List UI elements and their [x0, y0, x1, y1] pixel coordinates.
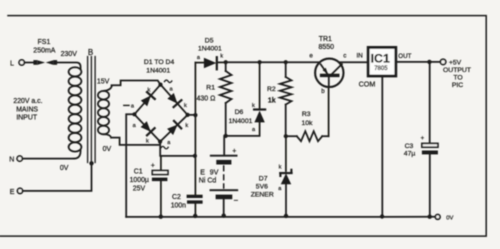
junction dot battery on rail — [222, 214, 226, 218]
junction dot R1 bottom battery — [224, 134, 228, 138]
svg-text:c: c — [343, 53, 346, 60]
svg-text:R2: R2 — [267, 86, 276, 93]
diode D2 (bridge top-right) — [167, 86, 187, 109]
wire earth E to core — [23, 164, 92, 191]
wire 15V to bridge top vertex — [112, 81, 161, 86]
svg-text:k: k — [148, 88, 151, 94]
svg-text:1N4001: 1N4001 — [198, 45, 222, 52]
wire bottom vertex to C1 branch — [160, 142, 195, 156]
svg-text:N: N — [9, 157, 14, 164]
capacitor C3 47u — [404, 136, 438, 158]
wire IC1 OUT to +5V terminal — [396, 61, 440, 63]
IC IC1 7805 — [357, 47, 412, 88]
junction dot COM on rail — [380, 214, 384, 218]
junction dot R2 bottom — [284, 134, 288, 138]
svg-text:COM: COM — [359, 79, 376, 88]
svg-text:k: k — [220, 54, 223, 60]
wire battery positive — [223, 136, 225, 156]
terminal E — [10, 188, 23, 196]
wire neutral N to primary — [22, 158, 74, 160]
junction dot C3 on rail — [428, 215, 432, 219]
zener D7 5V6 — [251, 136, 292, 215]
fuse FS1 — [33, 39, 57, 65]
svg-text:Ni Cd: Ni Cd — [199, 177, 217, 184]
wire output node down to C3 and rail — [429, 62, 431, 217]
svg-text:FS1: FS1 — [38, 39, 51, 46]
svg-text:230V: 230V — [61, 51, 78, 58]
svg-text:10k: 10k — [302, 120, 314, 127]
wire 0V secondary to bridge bottom vertex — [111, 138, 160, 145]
svg-text:1000µ: 1000µ — [130, 177, 149, 184]
svg-text:TO: TO — [453, 75, 462, 82]
bridge edge wires — [134, 85, 187, 142]
junction dot C2 on rail — [193, 214, 197, 218]
svg-text:−: − — [234, 196, 239, 205]
svg-text:R3: R3 — [302, 111, 311, 118]
label 230V — [61, 51, 78, 58]
wire bridge negative to 0V rail — [126, 114, 134, 217]
wire transistor base — [328, 87, 330, 136]
svg-text:0V: 0V — [60, 165, 69, 172]
top rail D5 to transistor emitter — [226, 61, 319, 63]
wire IC1 COM to rail — [381, 76, 383, 216]
diode D4 (bridge bottom-right) — [167, 121, 188, 146]
svg-text:430 Ω: 430 Ω — [197, 95, 216, 102]
svg-text:5V6: 5V6 — [256, 183, 268, 190]
label AC tilde bottom — [161, 146, 168, 149]
svg-text:IC1: IC1 — [371, 51, 390, 65]
svg-text:k: k — [279, 165, 282, 171]
terminal N — [9, 156, 22, 164]
svg-text:D1 TO D4: D1 TO D4 — [144, 59, 175, 66]
svg-text:220V a.c.: 220V a.c. — [13, 98, 42, 105]
wire L to fuse — [24, 62, 33, 64]
transformer T1 core — [88, 48, 96, 162]
svg-text:e: e — [309, 53, 313, 60]
capacitor C2 100n — [171, 194, 203, 210]
svg-text:D6: D6 — [235, 109, 244, 116]
terminal L — [10, 60, 24, 68]
svg-text:k: k — [146, 139, 149, 145]
terminal +5V OUTPUT TO PIC — [440, 59, 471, 89]
junction dot R1 top — [224, 60, 228, 64]
wire fuse to transformer primary — [57, 63, 81, 69]
battery E 9V Ni-Cd — [199, 148, 239, 216]
svg-text:+: + — [151, 162, 155, 169]
svg-text:L: L — [10, 61, 14, 68]
diode D3 (bridge bottom-left) — [133, 121, 155, 144]
junction dot positive riser top — [193, 113, 197, 117]
junction dot bridge right vertex — [186, 113, 190, 117]
svg-text:100n: 100n — [171, 203, 186, 210]
svg-text:15V: 15V — [97, 78, 110, 85]
svg-text:OUTPUT: OUTPUT — [443, 67, 471, 74]
junction dot bridge bottom vertex — [158, 140, 162, 144]
svg-text:k: k — [184, 103, 187, 109]
junction dot zener on rail — [284, 214, 288, 218]
junction dot output node — [427, 60, 431, 64]
transistor TR1 8550 — [309, 36, 346, 95]
svg-text:1N4001: 1N4001 — [146, 68, 170, 75]
svg-text:INPUT: INPUT — [16, 115, 37, 122]
label 0V secondary — [103, 146, 112, 153]
svg-text:0V: 0V — [446, 215, 453, 221]
svg-text:C3: C3 — [405, 143, 414, 150]
resistor R1 430 ohm — [197, 62, 232, 136]
svg-text:25V: 25V — [133, 186, 146, 193]
junction dot C1 branch — [193, 154, 197, 158]
svg-text:B: B — [88, 48, 93, 57]
label 0V primary — [60, 165, 69, 172]
label D1 TO D4 1N4001 — [144, 59, 175, 75]
svg-text:250mA: 250mA — [33, 47, 56, 54]
diode D5 — [195, 37, 225, 69]
svg-text:C2: C2 — [172, 194, 181, 201]
svg-text:1N4001: 1N4001 — [229, 118, 253, 125]
svg-text:PIC: PIC — [452, 82, 463, 89]
svg-text:R1: R1 — [206, 84, 215, 91]
junction dot earth to core — [89, 161, 93, 165]
transformer T1 secondary winding — [98, 86, 112, 138]
transformer T1 primary winding — [69, 67, 82, 158]
resistor R3 10k — [286, 111, 329, 141]
svg-text:7805: 7805 — [374, 66, 388, 72]
svg-text:+5V: +5V — [449, 59, 462, 66]
svg-text:C1: C1 — [134, 169, 143, 176]
svg-text:E: E — [10, 189, 15, 196]
svg-text:9V: 9V — [210, 169, 219, 176]
svg-text:ZENER: ZENER — [251, 191, 274, 198]
label AC tilde top — [164, 80, 171, 83]
resistor R2 1k — [267, 62, 292, 136]
svg-text:0V: 0V — [103, 146, 112, 153]
svg-text:47µ: 47µ — [404, 151, 416, 158]
diode D6 — [228, 62, 265, 136]
svg-text:b: b — [321, 88, 325, 95]
0V rail — [126, 216, 435, 218]
svg-text:TR1: TR1 — [319, 36, 332, 43]
svg-text:+: + — [421, 136, 425, 142]
svg-text:E: E — [200, 169, 205, 176]
svg-text:D5: D5 — [205, 37, 214, 44]
label 15V — [97, 78, 110, 85]
wire bridge positive to D5 and down — [188, 63, 196, 216]
svg-text:8550: 8550 — [319, 44, 335, 51]
svg-text:D7: D7 — [259, 175, 268, 182]
junction dot D6 top — [258, 60, 262, 64]
svg-text:MAINS: MAINS — [16, 106, 38, 113]
svg-text:k: k — [252, 103, 255, 109]
wire collector to IC1 IN — [340, 61, 368, 63]
junction dot R2 top — [284, 60, 288, 64]
label minus at bridge left — [124, 104, 129, 106]
capacitor C1 1000u 25V — [130, 156, 168, 217]
terminal 0V — [435, 215, 453, 222]
junction dot bridge left vertex — [132, 112, 136, 116]
label 220V a.c. MAINS INPUT — [13, 98, 42, 122]
junction dot C1 on rail — [159, 215, 163, 219]
svg-text:k: k — [185, 123, 188, 129]
junction dot bridge top vertex — [158, 83, 162, 87]
svg-text:1k: 1k — [268, 97, 276, 104]
svg-text:IN: IN — [357, 52, 363, 59]
diode D1 (bridge top-left) — [131, 88, 155, 110]
svg-text:OUT: OUT — [398, 53, 411, 60]
svg-text:+: + — [232, 148, 236, 155]
